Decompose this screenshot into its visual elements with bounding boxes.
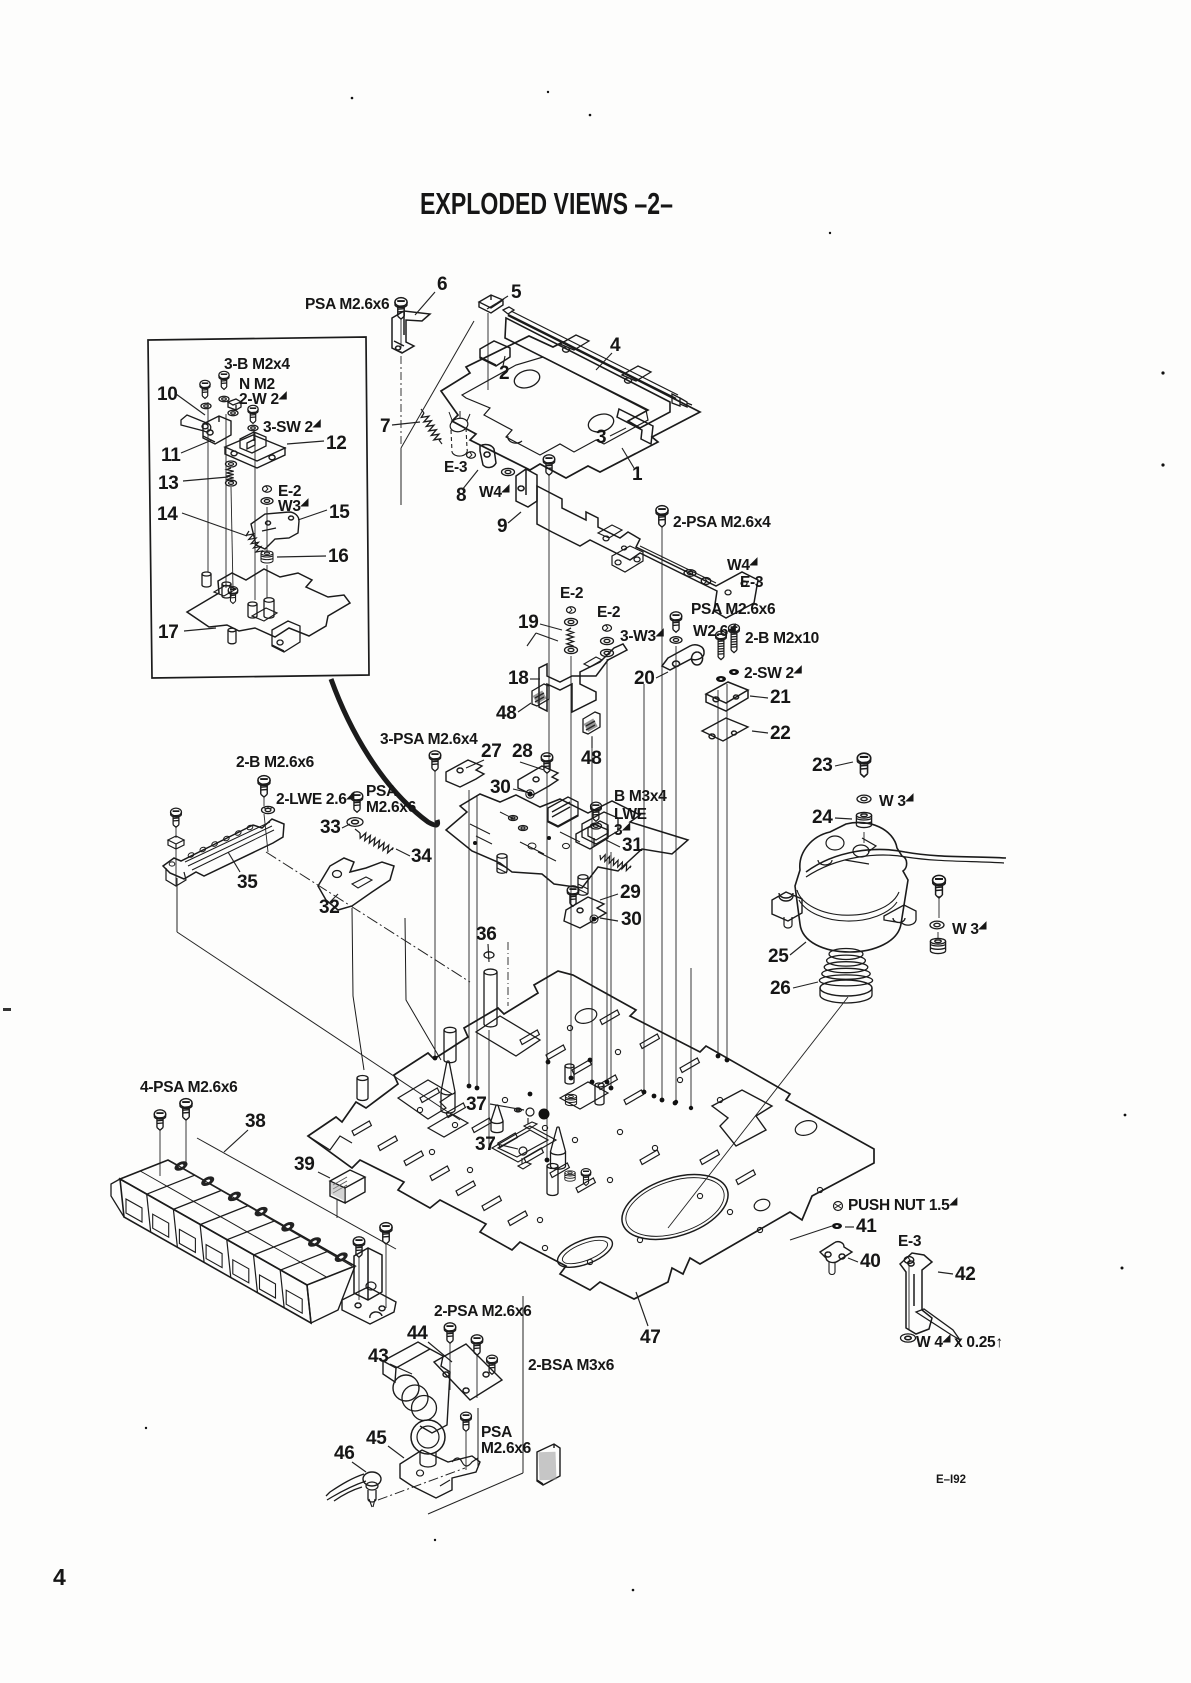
bar 4 body (505, 318, 670, 428)
bar 4 rod left tip (503, 307, 514, 314)
axis kb a (159, 1130, 161, 1176)
motor wire (806, 849, 1006, 872)
pin 30a (527, 791, 532, 796)
washer sw a (717, 677, 726, 682)
bracket 28 (518, 766, 558, 795)
black ball (539, 1109, 550, 1120)
axis col 21 (717, 690, 719, 1056)
axis line screw 6 (400, 318, 402, 340)
bracket 9 shelf (537, 486, 758, 618)
leader 6 (415, 292, 435, 315)
part 21 block (706, 682, 748, 711)
svg-text:3-PSA M2.6x4: 3-PSA M2.6x4 (380, 731, 478, 748)
leader 21 (750, 696, 768, 698)
bent axis 32 (352, 908, 364, 1070)
screw 35 left (171, 808, 182, 827)
part 1 plate inner (462, 357, 648, 455)
mech detail lines (470, 812, 580, 861)
plane 45 dashdot (378, 1468, 465, 1500)
washer E2f (601, 649, 614, 656)
bracket 42 (900, 1253, 932, 1334)
washer lwe3 (591, 823, 602, 829)
motor 25 top detail (818, 836, 876, 865)
screw 2-B b (729, 624, 740, 653)
svg-text:M2.6x6: M2.6x6 (481, 1440, 532, 1457)
svg-text:39: 39 (294, 1154, 315, 1175)
leader 15 (298, 510, 327, 520)
axis center screw (548, 474, 550, 770)
leader 44 (428, 1342, 452, 1362)
plate 47 pad a (492, 1126, 556, 1162)
screw kb a (154, 1110, 166, 1130)
svg-text:2-SW 2◢: 2-SW 2◢ (744, 664, 802, 682)
cyl right low (547, 1164, 558, 1196)
washer W4 top (502, 468, 515, 475)
leader 37b (497, 1144, 518, 1149)
leader 26 (793, 982, 818, 988)
bar 4 tab b (622, 366, 651, 383)
svg-text:35: 35 (237, 872, 258, 893)
leader 22 (752, 731, 768, 733)
plate 47 big hole (614, 1162, 737, 1251)
screw 23 (857, 753, 870, 777)
axis 2B-left (263, 796, 265, 806)
washer W3 b (930, 921, 944, 929)
bracket 15 (251, 512, 299, 549)
svg-text:E-2: E-2 (597, 604, 620, 621)
leader 45 (388, 1446, 404, 1458)
leader 18 (530, 678, 540, 680)
washer sw (248, 425, 258, 431)
screw 44 d (461, 1412, 472, 1431)
plate 47 outline (308, 971, 874, 1299)
motor 25 band (797, 890, 899, 921)
plate 47 seven hole (712, 1090, 772, 1146)
plate 47 oval slot (554, 1230, 617, 1273)
leader 41 long (790, 1226, 832, 1240)
pin 37b (519, 1147, 527, 1155)
svg-text:23: 23 (812, 755, 833, 776)
svg-text:37: 37 (466, 1094, 487, 1115)
plate 47 pad b (560, 1082, 608, 1109)
block on bracket 12 (240, 432, 266, 453)
svg-text:3: 3 (596, 427, 606, 448)
washer 33 (347, 818, 363, 827)
svg-text:36: 36 (476, 924, 497, 945)
bracket 6 (392, 311, 430, 353)
svg-text:13: 13 (158, 473, 179, 494)
inset axis lines (207, 402, 209, 572)
axis 42 (908, 1266, 910, 1330)
plane top assembly (401, 321, 474, 448)
part 22 plate (702, 718, 748, 741)
mech washers (509, 816, 518, 821)
slider 35 holes (187, 852, 194, 858)
leader 37a (490, 1104, 524, 1110)
screw kb d (380, 1223, 392, 1244)
grommet right low (565, 1171, 575, 1181)
pin 30b (592, 917, 597, 922)
grommet right a (565, 1094, 576, 1105)
inset studs on plate (202, 572, 211, 587)
leader 41 (845, 1226, 854, 1228)
standoff cone d (491, 1105, 503, 1133)
leader 8 (462, 470, 478, 490)
washer E2a (567, 607, 576, 613)
svg-text:11: 11 (161, 445, 181, 466)
axis 2-PSA (661, 526, 663, 1098)
part 48 b (583, 712, 600, 734)
part 1 notch (508, 436, 522, 443)
axis 30a (468, 790, 470, 1084)
svg-text:8: 8 (456, 485, 466, 506)
part 8 cam (480, 444, 496, 467)
washer W3 inset (261, 498, 273, 505)
svg-text:E-3: E-3 (898, 1233, 922, 1250)
svg-text:29: 29 (620, 882, 641, 903)
screw 3-SW (248, 405, 258, 423)
bracket 12 plate (225, 435, 285, 468)
inset detail box frame (148, 337, 369, 678)
leader 20 (656, 672, 668, 678)
washer W3 a (857, 795, 871, 803)
part 2 block (480, 341, 510, 366)
svg-text:2-B M2x10: 2-B M2x10 (745, 630, 819, 647)
mech stud b (497, 854, 507, 874)
svg-text:18: 18 (508, 668, 529, 689)
clip 37a (524, 1118, 537, 1129)
switch body 11 (203, 416, 231, 444)
screw 29 (567, 886, 579, 906)
slider 35 left tab (166, 868, 186, 886)
svg-text:37: 37 (475, 1134, 496, 1155)
plate 47 big slot a (476, 1016, 540, 1056)
bracket 40 (820, 1242, 852, 1263)
svg-text:14: 14 (157, 504, 178, 525)
lever 10 (181, 415, 211, 432)
svg-text:B M3x4: B M3x4 (614, 788, 667, 805)
svg-text:43: 43 (368, 1346, 389, 1367)
svg-text:48: 48 (496, 703, 517, 724)
pushnut icon (834, 1202, 843, 1211)
leader 31 (606, 840, 620, 847)
screw 44 c (487, 1355, 498, 1374)
lever 32 slot (352, 877, 372, 888)
washer 13 bot (226, 480, 237, 486)
bracket 27 (446, 760, 484, 787)
standoff cyl c (444, 1027, 456, 1062)
plate 47 right hole (753, 1198, 771, 1213)
axis 31screw (610, 852, 612, 1086)
part 18 lever (539, 644, 627, 712)
plate 47 small holes (417, 1107, 422, 1112)
eclip 42 (904, 1257, 914, 1264)
bracket 9 details (640, 546, 716, 583)
svg-text:17: 17 (158, 622, 179, 643)
eclip E-3 right (701, 578, 711, 585)
leader 46 (352, 1462, 366, 1472)
leader 10 (176, 394, 205, 415)
leader 1 (622, 448, 634, 468)
svg-text:26: 26 (770, 978, 791, 999)
svg-text:24: 24 (812, 807, 833, 828)
axis col2 (606, 659, 608, 1080)
bar 4 tab a (560, 335, 589, 352)
svg-text:2-B M2.6x6: 2-B M2.6x6 (236, 754, 315, 771)
svg-text:2-PSA M2.6x4: 2-PSA M2.6x4 (673, 514, 771, 531)
screw kb c (353, 1237, 365, 1257)
svg-text:7: 7 (380, 416, 390, 437)
spring 34 (360, 833, 393, 853)
slider 35 bar (163, 819, 284, 879)
svg-text:45: 45 (366, 1428, 387, 1449)
svg-text:30: 30 (621, 909, 642, 930)
axis 36 (488, 1030, 490, 1150)
screw 2-PSA right (656, 506, 668, 527)
washer 2-W a (201, 403, 211, 409)
svg-text:28: 28 (512, 741, 533, 762)
leader 43 (390, 1364, 412, 1374)
leader 38 (224, 1130, 248, 1152)
svg-text:PSA M2.6x6: PSA M2.6x6 (305, 296, 390, 313)
bracket 9 ear (516, 469, 537, 507)
plane left diagonal (176, 878, 178, 932)
pin 37a (526, 1108, 534, 1116)
plunger dashed (449, 416, 470, 433)
washer lwe (262, 806, 275, 813)
axis 23 (863, 832, 865, 843)
part 18 slot (584, 657, 602, 667)
kb hole (366, 1282, 376, 1290)
leader 30b (600, 918, 618, 921)
leader 23 (835, 762, 853, 766)
screw center plate1 (543, 455, 555, 475)
axis 28 (546, 772, 548, 1158)
spring 7 (421, 413, 441, 440)
svg-text:47: 47 (640, 1327, 661, 1348)
svg-text:27: 27 (481, 741, 502, 762)
leader 3 (610, 428, 626, 436)
part 48 a (532, 684, 549, 706)
svg-text:4: 4 (53, 1564, 66, 1590)
nut 35 (168, 836, 184, 849)
screw 2-B left (258, 776, 270, 797)
leader 34 (396, 849, 410, 856)
svg-text:34: 34 (411, 846, 432, 867)
svg-text:W 4◢ x 0.25↑: W 4◢ x 0.25↑ (916, 1333, 1003, 1351)
washer 42 (901, 1334, 916, 1342)
plate 47 left step (308, 1136, 352, 1150)
grommet 24 (856, 812, 871, 827)
cone right (551, 1127, 566, 1169)
svg-text:3-B M2x4: 3-B M2x4 (224, 356, 290, 373)
axis kb cd (358, 1257, 360, 1300)
svg-text:40: 40 (860, 1251, 881, 1272)
leader 4 (596, 353, 612, 370)
motor axis line (668, 997, 848, 1228)
leader 47 (636, 1292, 648, 1326)
svg-text:2-BSA M3x6: 2-BSA M3x6 (528, 1357, 615, 1374)
axis 48b (591, 736, 593, 1080)
leader 48b (591, 737, 593, 748)
plate 47 big slot b (398, 1080, 452, 1119)
mech solenoid coil (548, 797, 578, 827)
motor tab right (884, 905, 916, 925)
stray specks (145, 91, 1165, 1591)
axis 44 (449, 1343, 451, 1390)
leader 2 (503, 356, 505, 366)
axis motor right (938, 896, 940, 918)
part 3 rail (617, 409, 653, 444)
washer 13 top (226, 461, 237, 467)
leader 11 (181, 440, 212, 453)
standoff cyl left (357, 1076, 368, 1101)
plane mid col (507, 942, 509, 1006)
leader 48a (518, 703, 531, 712)
leader 13 (183, 477, 228, 481)
svg-text:10: 10 (157, 384, 178, 405)
svg-text:19: 19 (518, 612, 539, 633)
nut 41 (833, 1224, 842, 1229)
motor terminal left (772, 892, 802, 921)
axis 27 (434, 771, 436, 1056)
axis line pad 5 (487, 313, 489, 390)
screw 44 b (471, 1335, 483, 1355)
leader 5 (497, 296, 508, 303)
clip on 45 (452, 1458, 478, 1466)
nut N M2 (228, 399, 241, 410)
screw 44 a (444, 1323, 456, 1343)
leader 7 (392, 422, 420, 425)
mech stud a (578, 875, 588, 896)
pad 5 (479, 295, 503, 313)
axis col1 (570, 656, 572, 1076)
leader 36 (488, 944, 489, 962)
left margin dash (3, 1008, 11, 1011)
screw 2-B a (716, 631, 727, 660)
part 1 hole b (586, 411, 616, 435)
spring 13 (227, 468, 234, 481)
mechanism plate 31 outline (446, 794, 688, 888)
part 39 block (330, 1170, 365, 1203)
plate 47 slots (352, 1121, 371, 1136)
plate 47 small ellipse top (573, 1006, 598, 1026)
leader 30a (513, 789, 526, 792)
bent axis 33 (405, 918, 441, 1060)
screw kb b (180, 1099, 192, 1120)
bar 4 rod (508, 315, 676, 399)
part 36 bead (484, 952, 494, 958)
plate 47 pad c (428, 1114, 468, 1137)
plane 43 group (522, 1296, 524, 1473)
screw PSA mid (670, 612, 682, 632)
lever 32 (318, 858, 394, 910)
right gusset holes (725, 581, 747, 595)
leader 24 (835, 818, 852, 819)
grommet 16 (261, 551, 273, 563)
slider 35 streaks (185, 822, 274, 870)
svg-text:9: 9 (497, 516, 507, 537)
bracket 29 (564, 897, 606, 928)
keyboard 38 back rail (172, 1162, 352, 1266)
keyboard bracket right (354, 1248, 382, 1300)
screw right low (581, 1169, 591, 1186)
lever 32 hole (333, 871, 342, 878)
standoff right b (595, 1083, 604, 1105)
part 31 clamp (576, 824, 608, 849)
keyboard 38 right body (307, 1266, 355, 1323)
clip 37b (518, 1158, 531, 1169)
spring 14 (246, 531, 263, 552)
leader 42 (938, 1272, 953, 1274)
standoff right a (565, 1064, 574, 1084)
leader 40 (848, 1258, 858, 1262)
svg-text:41: 41 (856, 1216, 877, 1237)
washer W4 right (684, 570, 696, 577)
svg-text:46: 46 (334, 1443, 355, 1464)
svg-text:15: 15 (329, 502, 350, 523)
svg-text:38: 38 (245, 1111, 266, 1132)
inset hole cutouts (214, 585, 277, 621)
mech spring (600, 855, 631, 871)
plane left dashdot (266, 852, 470, 982)
svg-text:PUSH NUT 1.5◢: PUSH NUT 1.5◢ (848, 1196, 957, 1214)
leader 29 (600, 894, 618, 900)
plate 44 (434, 1344, 502, 1400)
washer E2c (565, 646, 578, 653)
part 1 plate outer (441, 336, 700, 478)
inset pointer swoosh (331, 679, 438, 825)
bracket 45 (400, 1450, 480, 1498)
leader 39 (318, 1172, 330, 1178)
leader 35 (228, 852, 240, 872)
svg-text:PSA: PSA (481, 1424, 512, 1441)
screw B M2x4 a (200, 380, 210, 398)
svg-text:3-SW 2◢: 3-SW 2◢ (263, 418, 321, 436)
svg-text:44: 44 (407, 1323, 428, 1344)
leader 17 (184, 628, 216, 631)
foam pad (537, 1444, 560, 1485)
bar 4 rod right end (672, 394, 692, 407)
leader 28 (520, 762, 544, 770)
washer E2e (601, 637, 614, 644)
leader 16 (277, 556, 326, 557)
axis col psa (675, 646, 677, 1100)
svg-text:E–I92: E–I92 (936, 1472, 966, 1486)
mech block window (582, 812, 618, 844)
axis col 20 (643, 684, 645, 1090)
svg-text:25: 25 (768, 946, 789, 967)
leader 33 (342, 824, 350, 828)
svg-text:30: 30 (490, 777, 511, 798)
part 36 cylinder (484, 969, 497, 1027)
svg-text:EXPLODED VIEWS –2–: EXPLODED VIEWS –2– (420, 186, 673, 221)
svg-text:42: 42 (955, 1264, 976, 1285)
plate 47 right ellipse (793, 1118, 818, 1138)
screw PSA top-left (395, 298, 407, 319)
plane keyboard back (197, 1138, 396, 1249)
keyboard 38 left face (111, 1179, 124, 1217)
part 20 strap (662, 645, 704, 670)
leader 12 (287, 441, 324, 444)
leader 14 (182, 513, 247, 536)
bellows 26 (829, 949, 863, 960)
spring 19 (567, 628, 574, 646)
svg-text:48: 48 (581, 748, 602, 769)
svg-text:33: 33 (320, 817, 341, 838)
svg-text:E-3: E-3 (444, 459, 468, 476)
solenoid 43 coils (393, 1375, 419, 1401)
